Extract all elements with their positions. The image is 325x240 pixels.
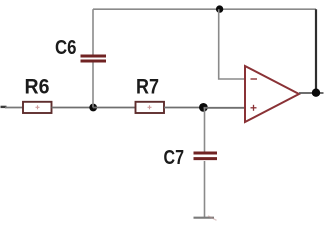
wire C6 to top rail [92,9,94,54]
svg-text:R7: R7 [136,76,159,99]
node feedback junction dot [216,5,223,12]
wire top feedback rail [93,8,316,10]
svg-text:C6: C6 [55,37,77,59]
node A junction dot [89,104,97,112]
resistor R6 [23,102,52,113]
wire input to R6 [5,107,23,109]
wire node A to C6 [92,63,94,108]
wire node B to C7 [204,108,206,153]
wire input stub [1,106,7,108]
wire R6 to node A [52,107,94,109]
op-amp U1 [245,66,299,122]
wire op-amp output [299,92,324,94]
wire R7 to node B [164,107,204,109]
wire right rail from top to output [315,9,317,92]
wire C7 to ground [204,161,206,218]
wire feedback drop to inverting input [219,9,245,79]
svg-text:R6: R6 [25,76,50,99]
node B junction dot [199,103,208,112]
node output junction dot [312,89,320,97]
wire node A to R7 [93,107,135,109]
capacitor C6 [81,56,107,61]
ground [194,216,217,221]
resistor R7 [136,102,165,113]
capacitor C7 [194,153,218,159]
wire node B to op-amp noninverting input [204,107,246,109]
svg-text:C7: C7 [164,147,185,169]
